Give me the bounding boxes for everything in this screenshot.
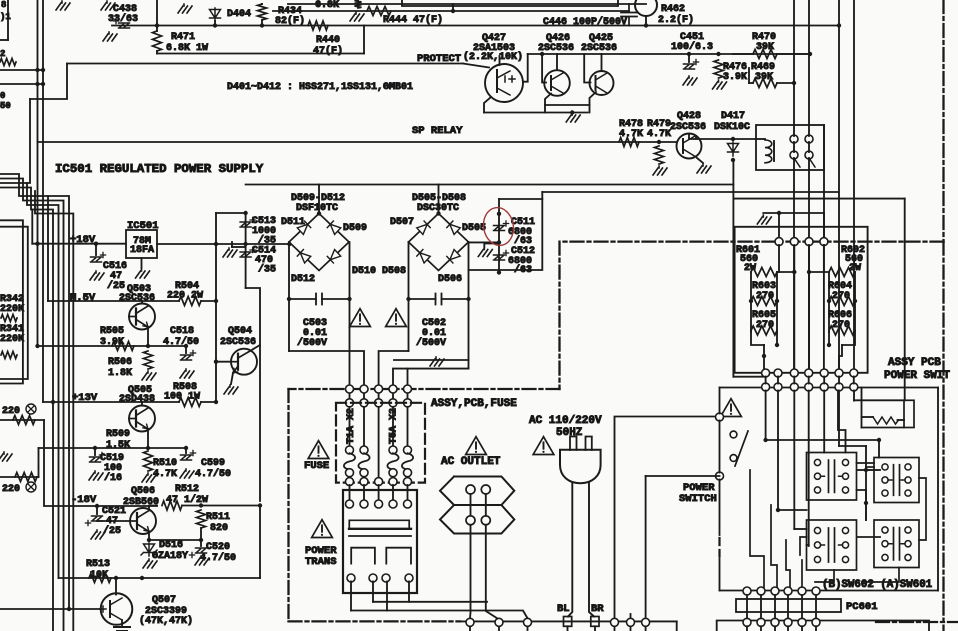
svg-text:6.8K 1W: 6.8K 1W — [166, 43, 208, 54]
svg-text:82(F): 82(F) — [275, 15, 305, 27]
svg-text:IC501 REGULATED POWER SUPPLY: IC501 REGULATED POWER SUPPLY — [55, 162, 264, 176]
svg-text:/500V: /500V — [416, 337, 446, 349]
svg-text:Q507: Q507 — [152, 595, 176, 606]
svg-text:4.7K: 4.7K — [619, 129, 643, 140]
svg-text:GZA18Y: GZA18Y — [152, 551, 188, 562]
svg-text:T1A X2: T1A X2 — [346, 408, 357, 444]
svg-text:M.5V: M.5V — [70, 292, 96, 304]
svg-text:D510 D508: D510 D508 — [352, 266, 406, 277]
svg-text:C520: C520 — [206, 542, 230, 553]
svg-text:R462: R462 — [661, 4, 685, 15]
svg-text:(2.2K,10K): (2.2K,10K) — [463, 51, 523, 63]
svg-text:47(F): 47(F) — [313, 45, 343, 57]
svg-text:R506: R506 — [108, 357, 132, 368]
svg-text:3.9K: 3.9K — [723, 72, 747, 83]
svg-text:R440: R440 — [316, 35, 340, 46]
svg-text:/35: /35 — [258, 264, 276, 276]
svg-text:2SC536: 2SC536 — [220, 337, 256, 348]
svg-text:220K: 220K — [0, 334, 24, 345]
svg-text:R513: R513 — [86, 559, 110, 570]
svg-text:TRANS: TRANS — [305, 556, 337, 568]
svg-text:D511: D511 — [281, 217, 305, 228]
svg-text:2SC536: 2SC536 — [581, 43, 617, 54]
svg-text:220K: 220K — [0, 304, 24, 315]
svg-text:4.7/50: 4.7/50 — [195, 468, 231, 480]
svg-text:D516: D516 — [159, 540, 183, 551]
svg-text:AC 110/220V: AC 110/220V — [529, 415, 602, 427]
svg-text:/500V: /500V — [297, 337, 327, 349]
svg-text:BR: BR — [591, 603, 604, 615]
svg-text:100/6.3: 100/6.3 — [671, 41, 713, 53]
svg-text:Q504: Q504 — [228, 326, 252, 337]
svg-text:2SD438: 2SD438 — [119, 394, 155, 405]
svg-text:C599: C599 — [201, 458, 225, 469]
svg-text:ASSY PCB: ASSY PCB — [888, 357, 941, 369]
svg-text:R444 47(F): R444 47(F) — [383, 14, 443, 26]
svg-text:AC OUTLET: AC OUTLET — [441, 456, 501, 468]
svg-text:4.7K: 4.7K — [153, 469, 177, 480]
svg-text:1.5K: 1.5K — [106, 440, 130, 451]
svg-text:R512: R512 — [175, 484, 199, 495]
svg-text:C518: C518 — [170, 326, 194, 337]
svg-text:D404: D404 — [227, 9, 251, 20]
svg-text:/25: /25 — [107, 280, 125, 292]
svg-text:8: 8 — [1, 0, 6, 10]
svg-text:2SC536: 2SC536 — [119, 293, 155, 304]
svg-text:3.9K: 3.9K — [100, 337, 124, 348]
svg-text:4.7K: 4.7K — [647, 129, 671, 140]
svg-text:)1: )1 — [0, 12, 11, 22]
svg-text:-18V: -18V — [71, 494, 97, 506]
svg-text:BL: BL — [557, 603, 570, 615]
svg-text:R471: R471 — [171, 32, 195, 43]
svg-text:D507: D507 — [390, 217, 414, 228]
svg-text:/63: /63 — [514, 264, 532, 276]
svg-text:D512: D512 — [291, 274, 315, 285]
svg-text:T5A X2: T5A X2 — [389, 408, 400, 444]
svg-text:2.2(F): 2.2(F) — [658, 14, 694, 26]
svg-text:D509: D509 — [343, 223, 367, 234]
svg-text:220: 220 — [2, 406, 20, 417]
svg-text:4.7/50: 4.7/50 — [200, 552, 236, 564]
svg-text:D401~D412 : HSS271,1SS131,GMB0: D401~D412 : HSS271,1SS131,GMB01 — [227, 82, 413, 93]
svg-text:R511: R511 — [206, 512, 230, 523]
svg-text:SP RELAY: SP RELAY — [412, 125, 463, 137]
svg-text:DSF10TC: DSF10TC — [296, 203, 338, 214]
svg-text:820: 820 — [210, 523, 228, 534]
svg-text:2SC536: 2SC536 — [670, 122, 706, 133]
svg-text:220: 220 — [2, 484, 20, 495]
svg-text:D417: D417 — [721, 111, 745, 122]
svg-text:50: 50 — [0, 101, 11, 111]
svg-text:R510: R510 — [153, 458, 177, 469]
svg-text:(47K,47K): (47K,47K) — [139, 615, 193, 627]
svg-text:R505: R505 — [100, 326, 124, 337]
svg-text:FUSE: FUSE — [304, 460, 329, 472]
svg-text:Q506: Q506 — [131, 486, 155, 497]
svg-text:(B)SW602 (A)SW601: (B)SW602 (A)SW601 — [822, 579, 933, 591]
svg-text:SWITCH: SWITCH — [679, 493, 717, 505]
svg-text:DSK10C: DSK10C — [714, 122, 750, 133]
svg-text:ASSY,PCB,FUSE: ASSY,PCB,FUSE — [431, 398, 517, 410]
svg-text:POWER SWIT: POWER SWIT — [884, 370, 950, 382]
svg-text:4.7/50: 4.7/50 — [163, 336, 199, 348]
svg-text:18FA: 18FA — [130, 245, 154, 256]
svg-text:D505: D505 — [462, 223, 486, 234]
svg-text:D506: D506 — [438, 274, 462, 285]
svg-text:1.8K: 1.8K — [108, 368, 132, 379]
svg-text:Q428: Q428 — [677, 111, 701, 122]
svg-text:R509: R509 — [106, 429, 130, 440]
svg-text:0: 0 — [0, 91, 5, 101]
svg-text:PC601: PC601 — [846, 601, 878, 613]
svg-text:/25: /25 — [103, 525, 121, 537]
svg-text:C446 100P/500V: C446 100P/500V — [543, 16, 627, 28]
svg-text:/16: /16 — [104, 472, 122, 484]
